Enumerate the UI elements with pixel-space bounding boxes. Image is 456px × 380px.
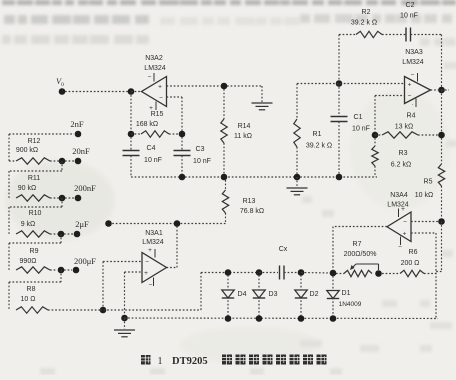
svg-text:900 kΩ: 900 kΩ bbox=[16, 147, 38, 154]
svg-text:C2: C2 bbox=[406, 2, 415, 9]
svg-text:10 nF: 10 nF bbox=[400, 13, 418, 20]
node 20nF tap bbox=[59, 158, 66, 165]
svg-text:R1: R1 bbox=[313, 131, 322, 138]
op-amp N3A3 LM324 bbox=[405, 77, 431, 104]
ground bbox=[296, 177, 298, 187]
svg-text:+: + bbox=[408, 82, 412, 89]
svg-text:LM324: LM324 bbox=[142, 239, 164, 246]
ground bbox=[252, 102, 273, 104]
svg-text:R14: R14 bbox=[238, 123, 251, 130]
svg-text:+: + bbox=[158, 84, 162, 91]
svg-text:R8: R8 bbox=[27, 286, 36, 293]
svg-text:C3: C3 bbox=[196, 146, 205, 153]
svg-text:R5: R5 bbox=[424, 179, 433, 186]
wire bbox=[382, 34, 406, 36]
node 200uF tap bbox=[58, 267, 65, 274]
svg-text:9 kΩ: 9 kΩ bbox=[21, 221, 36, 228]
svg-text:D3: D3 bbox=[269, 291, 278, 298]
node R8 junction bbox=[100, 307, 107, 314]
diode D3 bbox=[258, 275, 260, 316]
wire bbox=[100, 309, 201, 311]
wire bbox=[48, 309, 100, 311]
wire (analog common bus) bbox=[131, 176, 377, 178]
svg-text:LM324: LM324 bbox=[144, 65, 166, 72]
svg-text:+: + bbox=[401, 206, 405, 213]
wire (N3A4 - input) bbox=[411, 221, 438, 223]
svg-text:D4: D4 bbox=[238, 291, 247, 298]
wire bbox=[301, 272, 333, 275]
node 200nF tap bbox=[59, 195, 66, 202]
wire (N3A4 + input) bbox=[411, 232, 436, 234]
diode D2 bbox=[300, 275, 302, 316]
node C3 bottom bbox=[179, 174, 186, 181]
node D2 top bbox=[298, 269, 305, 276]
svg-text:−: − bbox=[408, 93, 412, 100]
wire (N3A3 + input rail) bbox=[297, 83, 405, 85]
svg-text:−: − bbox=[398, 244, 402, 251]
svg-text:R4: R4 bbox=[407, 113, 416, 120]
svg-text:10 nF: 10 nF bbox=[193, 158, 211, 165]
wire bbox=[109, 223, 226, 225]
wire (N3A4 output) bbox=[333, 226, 387, 228]
svg-text:+: + bbox=[144, 270, 148, 277]
resistor R12 900k&#937; bbox=[16, 158, 50, 164]
wire bbox=[61, 161, 63, 171]
resistor R3 6.2k&#937; bbox=[374, 138, 376, 146]
svg-text:D2: D2 bbox=[310, 291, 319, 298]
capacitor C4 10nF bbox=[130, 137, 132, 150]
svg-text:76.8 kΩ: 76.8 kΩ bbox=[240, 208, 264, 215]
svg-text:990Ω: 990Ω bbox=[20, 258, 37, 265]
node R7 right bbox=[375, 270, 382, 277]
node R15 left / C4 top bbox=[128, 131, 135, 138]
svg-text:39.2 k Ω: 39.2 k Ω bbox=[351, 20, 377, 27]
svg-text:−: − bbox=[145, 259, 149, 266]
node ground tie bbox=[121, 315, 128, 322]
node R15 right / C3 top bbox=[179, 131, 186, 138]
node D3 top bbox=[256, 269, 263, 276]
resistor R13 76.8k&#937; bbox=[225, 180, 227, 190]
capacitor C3 10nF bbox=[181, 137, 183, 150]
resistor R15 168k&#937; bbox=[131, 133, 141, 135]
svg-text:R12: R12 bbox=[28, 138, 41, 145]
svg-text:R2: R2 bbox=[362, 9, 371, 16]
svg-text:R3: R3 bbox=[399, 150, 408, 157]
svg-text:168 kΩ: 168 kΩ bbox=[136, 121, 158, 128]
svg-text:1N4009: 1N4009 bbox=[339, 301, 362, 308]
svg-text:200 Ω: 200 Ω bbox=[401, 260, 420, 267]
node N3A4 inverting node bbox=[438, 218, 445, 225]
svg-text:R13: R13 bbox=[243, 198, 256, 205]
svg-text:N3A4: N3A4 bbox=[390, 192, 408, 199]
resistor R6 200&#937; bbox=[382, 273, 400, 275]
svg-text:LM324: LM324 bbox=[387, 202, 409, 209]
resistor R4 13k&#937; bbox=[375, 134, 382, 136]
node V0 terminal bbox=[59, 88, 66, 95]
node 2uF tap bbox=[58, 231, 65, 238]
wire bbox=[65, 91, 128, 93]
svg-text:−: − bbox=[148, 74, 152, 81]
svg-text:C1: C1 bbox=[354, 114, 363, 121]
wire bbox=[60, 270, 62, 282]
node R14 bottom / R13 top bbox=[221, 174, 228, 181]
wire bbox=[296, 84, 298, 120]
node D3 bottom bbox=[256, 315, 263, 322]
wire bbox=[441, 222, 443, 272]
wire bbox=[60, 234, 62, 243]
wire (diode top bus) bbox=[201, 272, 259, 274]
svg-text:200nF: 200nF bbox=[74, 183, 96, 193]
svg-text:20nF: 20nF bbox=[72, 146, 90, 156]
wire bbox=[130, 92, 132, 135]
wire bbox=[61, 198, 63, 207]
node R1 bottom bbox=[294, 174, 301, 181]
node open terminal bbox=[105, 220, 112, 227]
svg-text:39.2 k Ω: 39.2 k Ω bbox=[306, 143, 332, 150]
svg-text:2nF: 2nF bbox=[70, 119, 84, 129]
svg-text:C4: C4 bbox=[147, 145, 156, 152]
wire (R2C2 branch) bbox=[339, 34, 356, 36]
node D4 bottom bbox=[225, 315, 232, 322]
wire (N3A1 inverting input) bbox=[103, 261, 142, 263]
capacitor Cx bbox=[259, 272, 278, 274]
svg-text:N3A2: N3A2 bbox=[145, 55, 163, 62]
resistor R1 39.2k&#937; bbox=[294, 119, 300, 147]
svg-text:1: 1 bbox=[157, 356, 162, 367]
svg-text:200μF: 200μF bbox=[74, 256, 96, 266]
node R4 right bbox=[438, 132, 445, 139]
svg-text:10 Ω: 10 Ω bbox=[21, 296, 36, 303]
node A (N3A2 output node) bbox=[128, 88, 135, 95]
node N3A3 output bbox=[438, 87, 445, 94]
resistor R10 9k&#937; bbox=[16, 231, 50, 237]
wire bbox=[424, 273, 436, 275]
wire bbox=[8, 134, 10, 161]
svg-text:11 kΩ: 11 kΩ bbox=[234, 133, 252, 140]
resistor R2 39.2k&#937; bbox=[356, 31, 382, 37]
svg-text:10 nF: 10 nF bbox=[144, 157, 162, 164]
svg-text:Cx: Cx bbox=[279, 246, 288, 253]
node N3A1 output riser bbox=[174, 220, 181, 227]
svg-text:R6: R6 bbox=[409, 249, 418, 256]
wire bbox=[411, 34, 442, 36]
svg-text:D1: D1 bbox=[342, 290, 351, 297]
svg-text:+: + bbox=[148, 247, 152, 254]
svg-text:2μF: 2μF bbox=[75, 219, 89, 229]
svg-text:−: − bbox=[411, 72, 415, 79]
node C1 top bbox=[336, 80, 343, 87]
svg-text:−: − bbox=[149, 282, 153, 289]
node D2 bottom bbox=[298, 315, 305, 322]
wire bbox=[131, 91, 142, 93]
node D1 bottom bbox=[330, 315, 337, 322]
node R4 left / R3 top bbox=[372, 132, 379, 139]
wire (N3A1 output) bbox=[167, 267, 178, 269]
wiper of R7 bbox=[356, 263, 379, 265]
svg-text:−: − bbox=[159, 95, 163, 102]
svg-text:R7: R7 bbox=[353, 241, 362, 248]
svg-text:R15: R15 bbox=[151, 111, 164, 118]
svg-text:N3A3: N3A3 bbox=[405, 49, 423, 56]
svg-text:DT9205: DT9205 bbox=[172, 356, 208, 367]
wire bbox=[338, 35, 340, 81]
svg-text:200Ω/50%: 200Ω/50% bbox=[344, 251, 377, 258]
svg-text:R11: R11 bbox=[28, 175, 40, 182]
ground bbox=[124, 318, 126, 329]
svg-text:R10: R10 bbox=[29, 210, 42, 217]
svg-text:10 nF: 10 nF bbox=[352, 126, 370, 133]
op-amp N3A1 LM324 bbox=[142, 253, 167, 283]
svg-text:6.2 kΩ: 6.2 kΩ bbox=[391, 162, 411, 169]
svg-text:90 kΩ: 90 kΩ bbox=[18, 185, 36, 192]
wire (ground bus) bbox=[125, 317, 439, 320]
resistor R5 10k&#937; bbox=[441, 138, 443, 164]
wire (N3A1 + input to ground) bbox=[125, 271, 143, 273]
wire (N3A3 - input) bbox=[375, 95, 405, 97]
wire bbox=[227, 85, 262, 87]
svg-text:+: + bbox=[403, 231, 407, 238]
wire (to diode bus) bbox=[200, 273, 202, 311]
diode D4 bbox=[227, 275, 229, 316]
wire (N3A2 feedback) bbox=[167, 96, 183, 98]
caption: fig 1 DT9205 capacitance measuring circuit bbox=[141, 355, 151, 365]
wire (N3A2 + input rail) bbox=[167, 85, 222, 87]
svg-text:LM324: LM324 bbox=[402, 59, 424, 66]
node C1 bottom bbox=[336, 174, 343, 181]
svg-text:−: − bbox=[403, 219, 407, 226]
svg-text:10 kΩ: 10 kΩ bbox=[415, 192, 433, 199]
node D4 top bbox=[225, 269, 232, 276]
resistor R14 11k&#937; bbox=[223, 89, 225, 119]
capacitor C2 10nF bbox=[405, 28, 407, 42]
node R14 top bbox=[221, 83, 228, 90]
resistor R8 10&#937; bbox=[16, 307, 48, 313]
node 2nF tap bbox=[9, 133, 74, 135]
node D1 top / R7 left / N3A4 out bbox=[330, 270, 337, 277]
svg-text:N3A1: N3A1 bbox=[145, 230, 163, 237]
wire bbox=[431, 89, 450, 91]
resistor R11 90k&#937; bbox=[16, 195, 50, 201]
wire bbox=[441, 90, 443, 132]
potentiometer R7 200&#937;/50% bbox=[336, 273, 344, 275]
svg-text:·: · bbox=[411, 101, 413, 108]
capacitor C1 10nF bbox=[338, 84, 340, 117]
resistor R9 990&#937; bbox=[16, 267, 50, 273]
op-amp N3A4 LM324 bbox=[387, 212, 411, 242]
svg-text:13 kΩ: 13 kΩ bbox=[395, 124, 413, 131]
diode D1 1N4009 bbox=[332, 276, 334, 316]
op-amp N3A2 LM324 bbox=[142, 77, 167, 107]
svg-text:R9: R9 bbox=[30, 248, 39, 255]
